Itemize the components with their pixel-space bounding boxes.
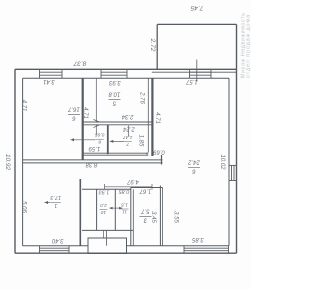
door jamb at hall/room4	[161, 155, 163, 165]
window W4 bottom-left	[40, 246, 70, 253]
svg-text:10.92: 10.92	[4, 154, 11, 171]
window W1 top-left	[40, 69, 63, 78]
svg-text:5.06: 5.06	[21, 201, 27, 213]
svg-text:1.67: 1.67	[139, 188, 151, 194]
room 3 label	[140, 208, 152, 223]
svg-text:8: 8	[98, 139, 101, 145]
svg-text:10: 10	[101, 209, 107, 215]
bathroom label arrow	[71, 139, 96, 141]
svg-text:1: 1	[54, 202, 57, 208]
svg-text:0.85: 0.85	[118, 188, 130, 194]
svg-text:7.45: 7.45	[190, 4, 203, 11]
svg-text:10.8: 10.8	[108, 91, 120, 97]
small rooms L1/L2 top wall	[82, 188, 131, 190]
room 7 label (WC)	[123, 134, 133, 147]
window W3 top (veranda wall)	[190, 69, 212, 78]
WC dim tick	[128, 126, 130, 137]
svg-text:0.69: 0.69	[153, 149, 165, 155]
vestibule divider	[106, 230, 108, 245]
outer wall top	[15, 68, 237, 70]
bathroom top wall	[83, 121, 152, 123]
WC label arrow	[110, 140, 124, 142]
svg-text:3.40: 3.40	[51, 237, 63, 243]
svg-text:1.57: 1.57	[186, 78, 198, 84]
hall dim line 4.97	[105, 184, 153, 190]
WC corner cap	[146, 153, 148, 156]
svg-text:3.41: 3.41	[43, 78, 55, 84]
outer wall bottom	[15, 252, 237, 254]
svg-text:4.97: 4.97	[127, 178, 139, 184]
svg-text:3.85: 3.85	[192, 236, 204, 242]
bathroom/WC bottom wall	[83, 152, 148, 154]
svg-text:16.7: 16.7	[68, 106, 80, 112]
WC left wall	[107, 125, 109, 154]
L2 right / room3 left wall	[130, 188, 132, 246]
room 8 label (bathroom)	[95, 132, 105, 145]
svg-text:3.93: 3.93	[109, 79, 121, 85]
closet L1 label	[100, 202, 108, 215]
svg-text:2.24: 2.24	[123, 126, 136, 132]
closet L2 label	[121, 202, 129, 215]
room 6 label	[68, 106, 80, 121]
svg-text:отдел продаж дома: отдел продаж дома	[246, 15, 252, 78]
window W6 bottom-right	[184, 246, 229, 253]
room 4 label	[188, 159, 201, 174]
svg-text:4.71: 4.71	[21, 100, 27, 112]
svg-text:1,5: 1,5	[121, 202, 128, 208]
outer wall left	[14, 69, 16, 253]
porch	[88, 238, 127, 254]
svg-text:1.85: 1.85	[137, 135, 143, 147]
svg-text:2.34: 2.34	[121, 113, 134, 119]
svg-text:10.02: 10.02	[219, 154, 225, 170]
svg-text:17.3: 17.3	[50, 194, 62, 200]
veranda floor inner line	[152, 71, 237, 73]
svg-text:7: 7	[126, 141, 129, 147]
room1 label arrow	[45, 202, 51, 204]
svg-text:4.71: 4.71	[82, 107, 88, 119]
svg-text:3.55: 3.55	[173, 211, 179, 223]
interior wall room6 right (x=83)	[82, 78, 84, 160]
tick through window W3	[196, 60, 198, 82]
dim line 4.71 room5	[94, 78, 100, 135]
svg-text:8.37: 8.37	[73, 60, 86, 67]
window W2 top-middle	[101, 69, 127, 78]
room 1 label	[50, 194, 62, 208]
small rooms bottom wall	[82, 229, 133, 231]
big horizontal wall (hall top)	[23, 159, 163, 161]
svg-text:1.59: 1.59	[88, 145, 100, 151]
veranda top wall	[157, 23, 236, 25]
outer wall right	[236, 24, 238, 253]
svg-text:3.45: 3.45	[150, 211, 156, 223]
room1 right wall with door gap	[79, 179, 81, 246]
svg-text:2.76: 2.76	[139, 91, 145, 104]
svg-text:1,47: 1,47	[123, 134, 133, 140]
svg-text:11: 11	[122, 209, 127, 215]
svg-text:8.38: 8.38	[85, 161, 97, 167]
room3 top wall	[131, 187, 163, 189]
svg-text:4.71: 4.71	[154, 112, 160, 124]
svg-text:24.2: 24.2	[188, 159, 201, 165]
svg-text:0,65: 0,65	[95, 132, 105, 138]
svg-text:1.93: 1.93	[98, 189, 110, 195]
small rooms left wall	[96, 189, 98, 230]
dim arrow between closets	[109, 207, 122, 209]
room 5 label	[108, 91, 120, 106]
svg-text:2,0: 2,0	[100, 202, 108, 208]
svg-text:5.7: 5.7	[141, 208, 150, 214]
wall between L1 and L2	[114, 189, 116, 230]
veranda left wall	[156, 24, 158, 69]
svg-text:2.72: 2.72	[149, 38, 156, 52]
interior big wall A (x=152)	[151, 78, 153, 156]
window W5 right wall	[229, 165, 237, 180]
